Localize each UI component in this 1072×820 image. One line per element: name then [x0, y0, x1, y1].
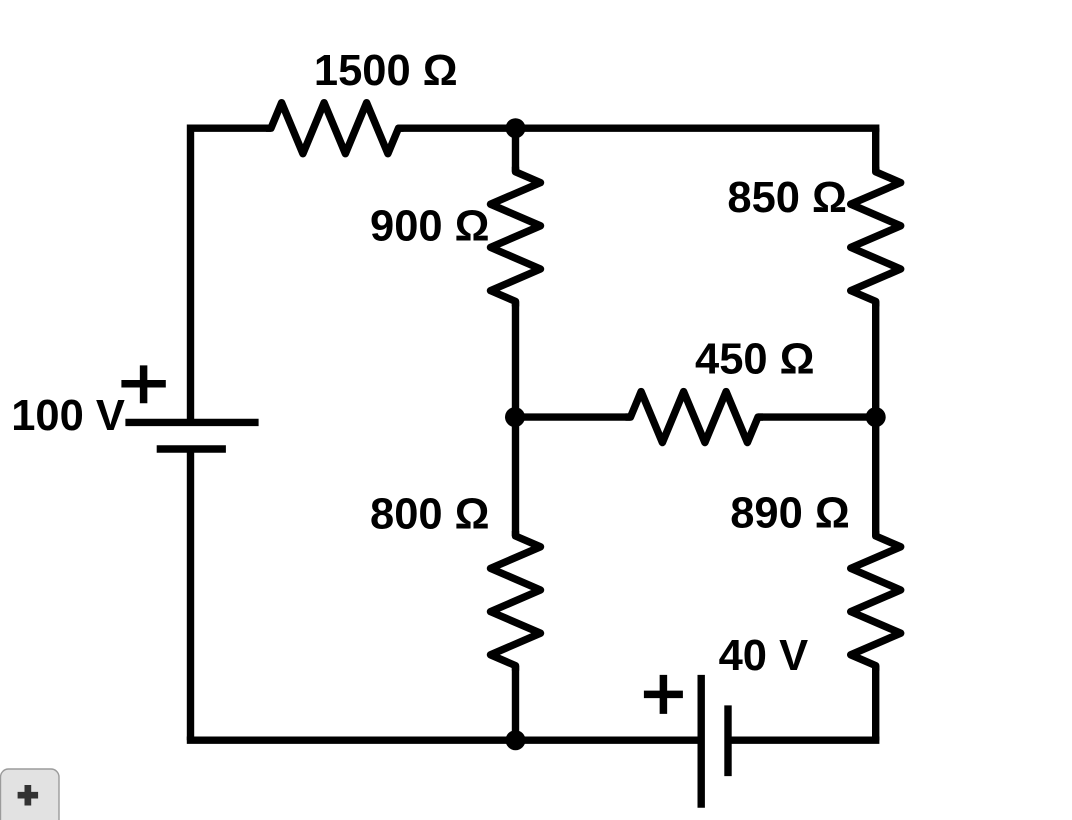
node junction dot top middle [506, 118, 526, 138]
resistor 1500 ohm [266, 103, 404, 154]
svg-text:450 Ω: 450 Ω [695, 335, 815, 383]
node junction dot middle left [505, 407, 525, 427]
battery 40 V long plate [698, 675, 705, 808]
resistor 850 ohm [851, 167, 901, 307]
svg-text:100 V: 100 V [11, 392, 125, 440]
wire right vertical bottom segment [872, 666, 879, 741]
wire bottom right horizontal [728, 737, 879, 744]
wire middle vertical between 900 and node [512, 301, 519, 417]
zoom-in button [1, 769, 60, 820]
battery 100 V long plate [125, 419, 258, 426]
battery 100 V short plate [157, 445, 226, 452]
wire right vertical between 850 and node [872, 301, 879, 417]
wire right vertical between node and 890 [872, 417, 879, 536]
svg-text:800 Ω: 800 Ω [370, 490, 490, 538]
wire middle vertical top segment [512, 128, 519, 172]
battery 40 V plus sign [644, 675, 683, 714]
wire middle horizontal left of 450 [515, 413, 631, 420]
wire bottom left horizontal [187, 737, 701, 744]
resistor 800 ohm [491, 531, 541, 671]
svg-text:1500 Ω: 1500 Ω [314, 47, 458, 95]
node junction dot bottom middle [506, 730, 526, 750]
resistor 890 ohm [851, 531, 901, 671]
wire left vertical lower [187, 449, 194, 740]
wire middle vertical bottom segment [512, 666, 519, 741]
node junction dot middle right [866, 407, 886, 427]
svg-text:890 Ω: 890 Ω [730, 489, 850, 537]
wire top-left horizontal [191, 124, 272, 131]
resistor 900 ohm [491, 167, 541, 307]
wire right vertical top segment [872, 128, 879, 172]
svg-text:850 Ω: 850 Ω [727, 174, 847, 222]
battery 100 V plus sign [121, 365, 165, 403]
battery 40 V short plate [724, 705, 731, 776]
wire middle horizontal right of 450 [758, 413, 876, 420]
resistor 450 ohm [626, 392, 764, 443]
svg-text:40 V: 40 V [719, 632, 809, 680]
svg-text:900 Ω: 900 Ω [370, 202, 490, 250]
wire top horizontal right of 1500 [399, 124, 880, 131]
wire middle vertical between node and 800 [512, 417, 519, 536]
wire left vertical upper [187, 125, 194, 423]
